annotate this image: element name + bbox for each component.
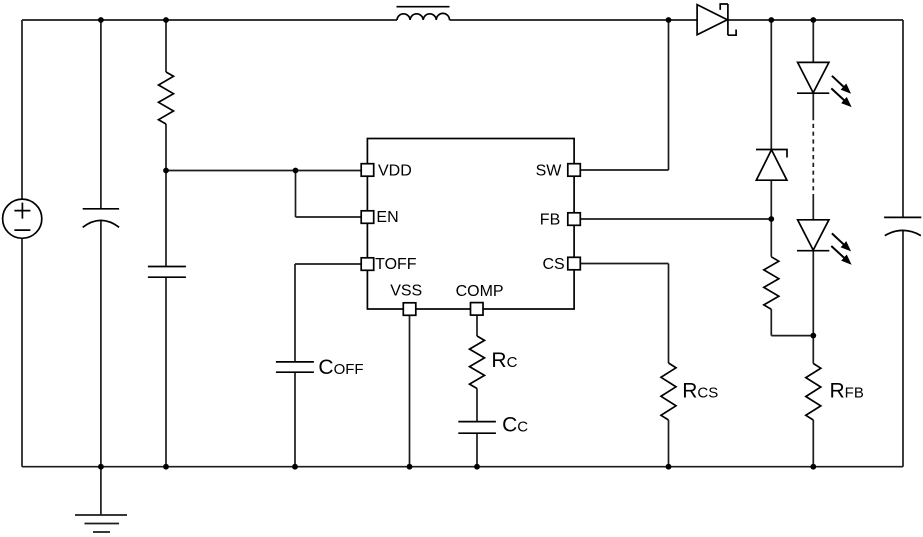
svg-text:SW: SW [536, 163, 563, 180]
svg-text:COMP: COMP [456, 283, 504, 300]
svg-text:VDD: VDD [378, 163, 412, 180]
svg-text:FB: FB [540, 212, 560, 229]
svg-text:EN: EN [376, 209, 398, 226]
svg-text:CS: CS [543, 256, 565, 273]
svg-text:TOFF: TOFF [375, 256, 417, 273]
svg-text:VSS: VSS [390, 283, 422, 300]
